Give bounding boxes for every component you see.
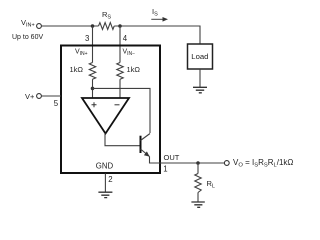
arrow IS current direction — [151, 17, 168, 22]
wire op-amp output to transistor base — [105, 134, 140, 146]
resistor 1k left — [89, 63, 95, 80]
ground load — [193, 87, 207, 93]
wire 1k left to op-amp + input — [92, 79, 94, 98]
label VO formula — [233, 158, 293, 169]
ground RL — [191, 202, 204, 207]
node junction pin3 — [91, 24, 95, 28]
wire emitter to OUT — [150, 157, 225, 164]
wire 1k right to op-amp - input — [119, 79, 121, 98]
label IS — [152, 7, 158, 18]
wire OUT junction to RL — [197, 163, 199, 174]
label VIN+ — [21, 18, 35, 29]
wire pin4 drop — [119, 26, 121, 63]
svg-text:2: 2 — [108, 175, 112, 184]
wire load to ground — [199, 69, 201, 87]
ground IC — [98, 192, 112, 197]
svg-text:1kΩ: 1kΩ — [127, 65, 141, 74]
resistor RL — [195, 174, 201, 193]
node OUT junction — [196, 161, 200, 165]
pin 4 — [123, 34, 128, 43]
wire top rail left (VIN+ to RS) — [42, 25, 99, 27]
pin 1 — [163, 165, 167, 174]
node feedback junction — [91, 87, 95, 91]
svg-text:1kΩ: 1kΩ — [70, 65, 84, 74]
svg-text:V+: V+ — [25, 92, 35, 101]
label RL — [207, 179, 215, 190]
svg-text:5: 5 — [54, 99, 59, 108]
wire feedback to transistor collector — [93, 88, 151, 133]
wire pin3 drop — [92, 26, 94, 63]
node junction pin4 — [118, 24, 122, 28]
value 1k ohm left — [70, 65, 84, 74]
label V+ — [25, 92, 35, 101]
op-amp U1a — [82, 98, 129, 134]
load box — [188, 44, 213, 69]
svg-text:3: 3 — [85, 34, 89, 43]
svg-text:1: 1 — [163, 165, 167, 174]
wire V+ to box — [42, 95, 62, 97]
wire RL to ground — [197, 193, 199, 203]
svg-text:4: 4 — [123, 34, 128, 43]
terminal VIN+ — [37, 24, 42, 29]
pin 5 — [54, 99, 59, 108]
value 1k ohm right — [127, 65, 141, 74]
resistor RS — [99, 23, 115, 30]
label RS — [102, 10, 111, 21]
label Up to 60V — [12, 34, 43, 41]
svg-text:OUT: OUT — [164, 153, 180, 162]
svg-text:Load: Load — [191, 52, 208, 61]
pin 3 — [85, 34, 89, 43]
label VIN+ internal — [75, 49, 88, 57]
wire GND pin drop — [104, 174, 106, 193]
svg-text:GND: GND — [96, 161, 114, 170]
svg-text:Up to 60V: Up to 60V — [12, 34, 43, 41]
terminal V+ — [37, 94, 42, 99]
wire top rail right (RS to load corner) — [114, 26, 200, 44]
IC box U1 — [61, 46, 160, 174]
label OUT — [164, 153, 180, 162]
label GND — [96, 161, 114, 170]
pin 2 — [108, 175, 112, 184]
resistor 1k right — [117, 63, 123, 80]
transistor Q1 — [141, 134, 151, 157]
label VIN- internal — [123, 49, 136, 57]
terminal VO — [224, 161, 229, 166]
